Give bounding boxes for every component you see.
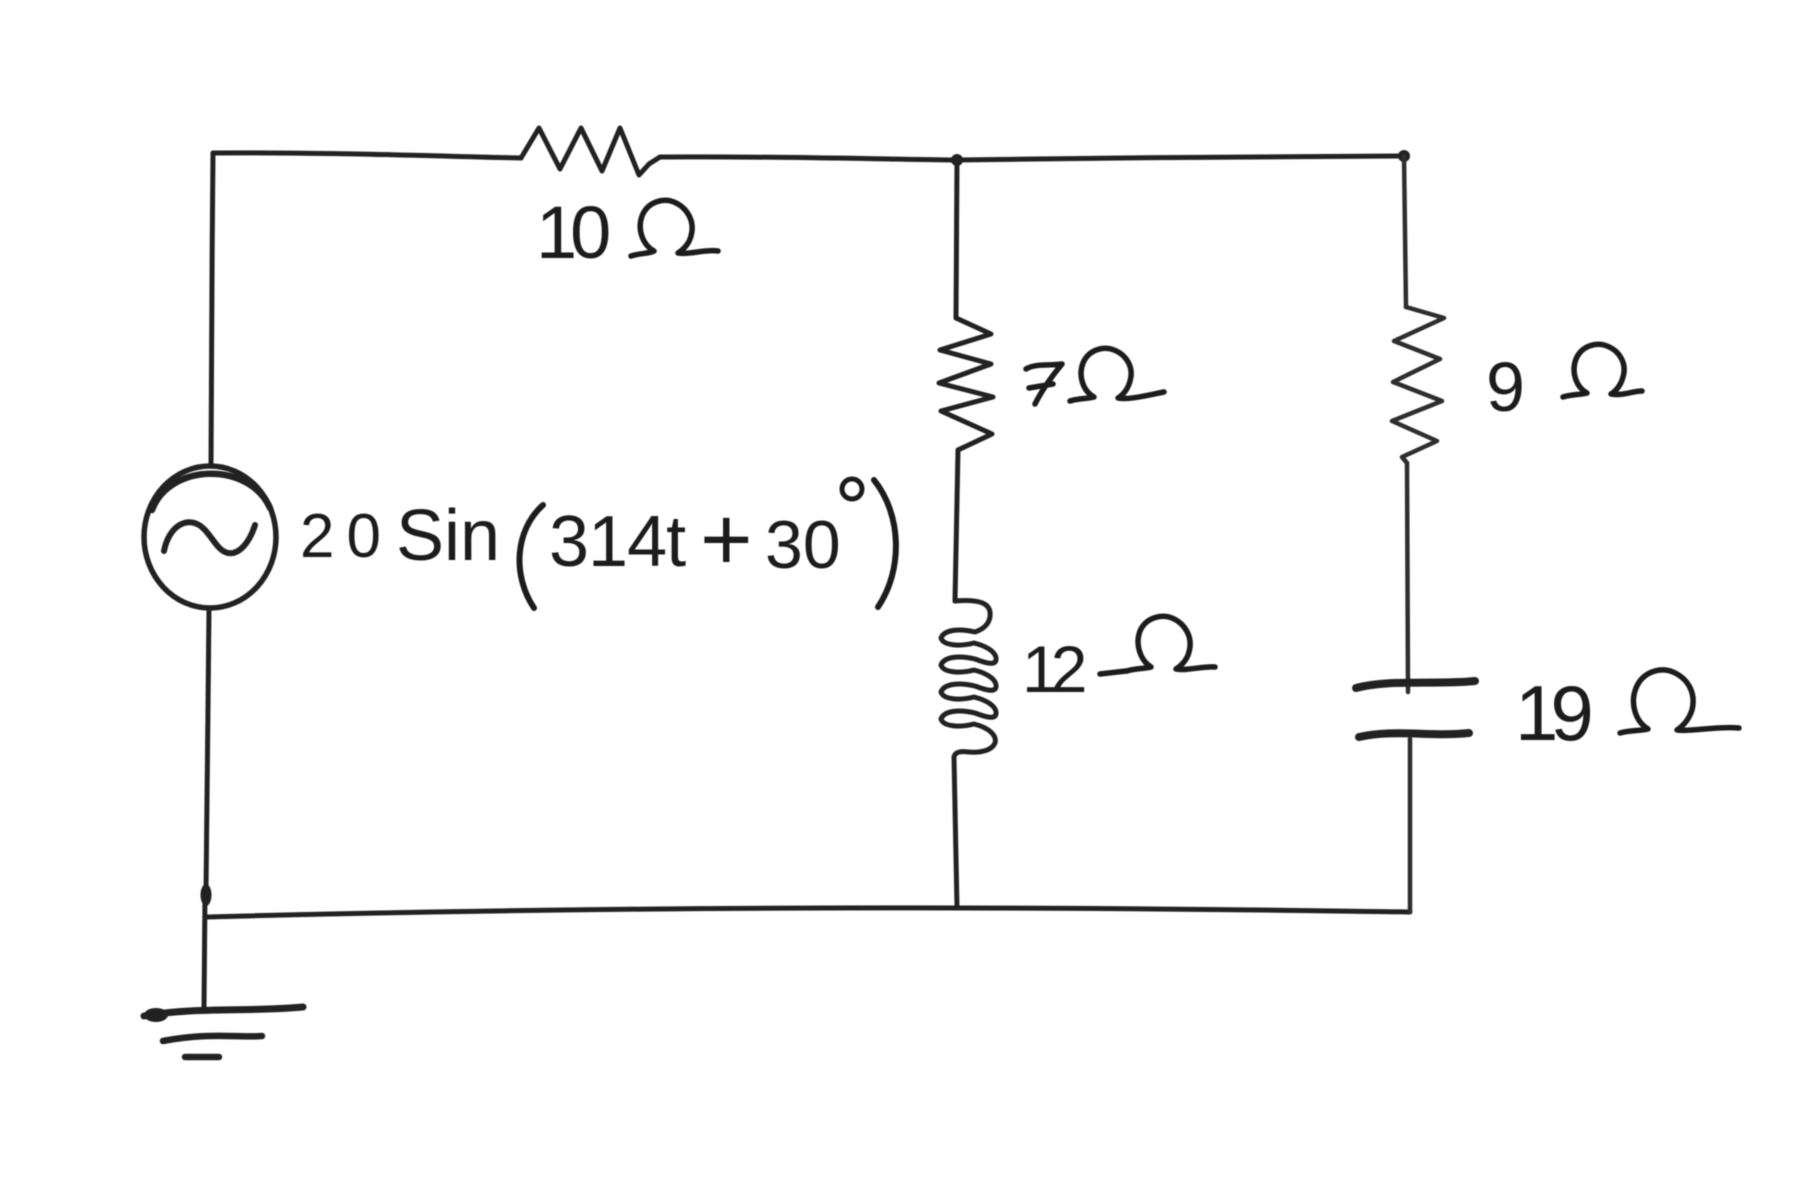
label source close paren (874, 480, 896, 607)
svg-text:19: 19 (1515, 669, 1590, 757)
label omega for R3 (1563, 344, 1642, 397)
wire right branch lower (1408, 739, 1413, 912)
ground bar 2 (163, 1036, 262, 1041)
capacitor C1 top plate (1356, 681, 1475, 688)
wire left vertical lower (206, 608, 209, 891)
svg-text:30: 30 (765, 507, 841, 583)
label source degree circle (842, 479, 862, 499)
label omega for R1 (631, 200, 718, 256)
label omega for R2 (1070, 348, 1164, 401)
inductor L1 12ohm coil (941, 600, 996, 757)
wire middle branch upper (956, 160, 957, 318)
label omega for C1 (1620, 670, 1739, 733)
label 7 (R2 value) (1026, 364, 1062, 404)
capacitor C1 bottom plate (1359, 733, 1469, 737)
wire top-left horizontal (213, 153, 521, 158)
label omega for L1 (1127, 616, 1215, 671)
ground stem wire (204, 895, 205, 1007)
svg-text:+: + (700, 490, 753, 590)
wire top-right (957, 156, 1404, 160)
label source open paren (519, 505, 543, 608)
ac source top overdrawn arc (152, 474, 270, 510)
svg-text:20: 20 (300, 502, 393, 571)
node junction top-middle (951, 154, 963, 166)
ac source V1 circle (144, 466, 276, 608)
dash between 12 and omega (1100, 671, 1126, 674)
wire right branch upper (1404, 156, 1406, 307)
node top-right corner (1398, 150, 1410, 162)
resistor R2 7ohm (middle vertical) (939, 318, 993, 450)
svg-text:10: 10 (536, 191, 609, 274)
wire bottom horizontal (207, 908, 1410, 917)
wire middle branch lower (954, 757, 957, 908)
node junction bottom-left (201, 884, 212, 906)
ground bar 1 (144, 1007, 303, 1016)
svg-text:12: 12 (1022, 632, 1085, 706)
resistor R1 10ohm (top) (521, 128, 660, 175)
wire top-middle (660, 157, 957, 160)
svg-text:Sin: Sin (396, 496, 500, 576)
wire left vertical upper (211, 153, 213, 466)
wire middle branch between R2 and L1 (955, 450, 958, 601)
svg-text:314t: 314t (549, 502, 686, 582)
resistor R3 9ohm (right vertical) (1392, 307, 1444, 463)
wire right branch between R3 and C1 (1407, 463, 1408, 692)
svg-text:9: 9 (1486, 348, 1525, 426)
ground bar 3 (185, 1054, 219, 1061)
ac source sine wave (164, 522, 255, 553)
